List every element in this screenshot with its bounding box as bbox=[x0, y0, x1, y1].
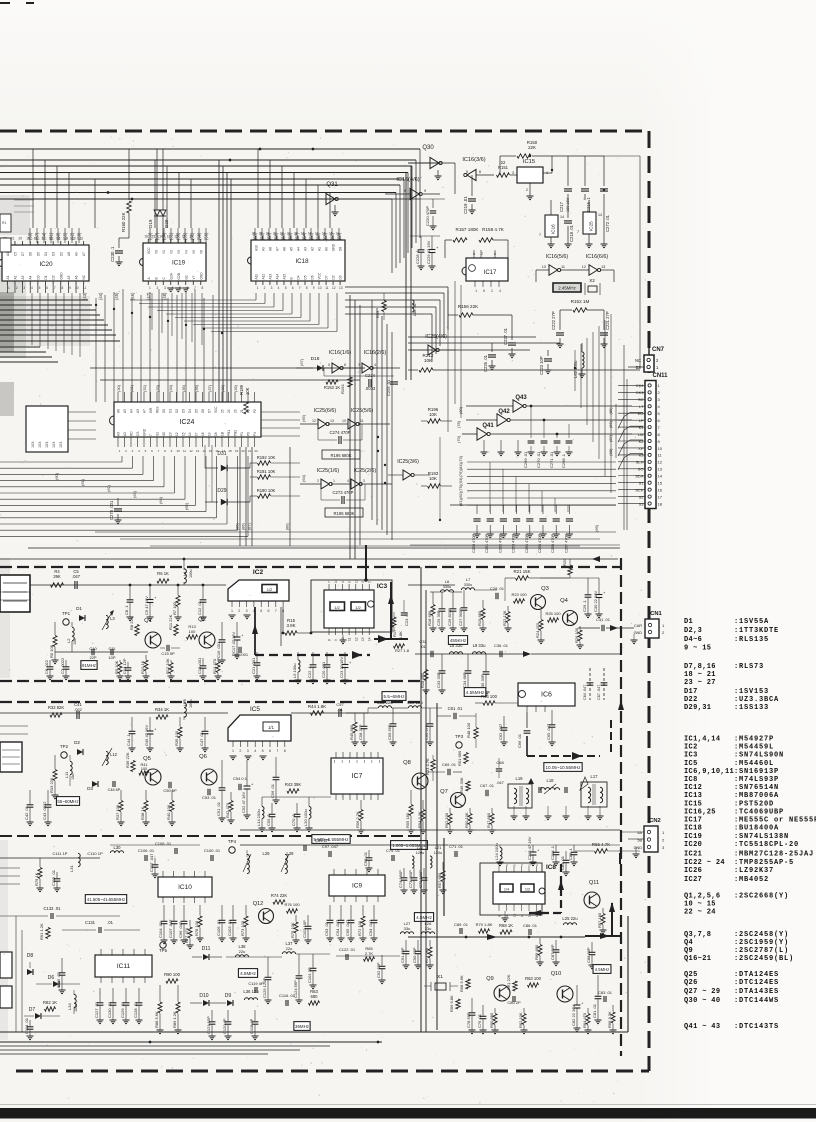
resistor R151 22 bbox=[497, 173, 510, 177]
svg-text:C78 56P: C78 56P bbox=[466, 1012, 471, 1028]
svg-text:22: 22 bbox=[501, 160, 506, 165]
capacitor C8 .1 bbox=[129, 585, 131, 599]
svg-text:R64 470: R64 470 bbox=[582, 1012, 587, 1028]
svg-text:RES: RES bbox=[156, 406, 160, 413]
svg-text:Q42: Q42 bbox=[498, 409, 510, 415]
svg-text:R151: R151 bbox=[498, 165, 509, 170]
svg-text:5: 5 bbox=[262, 749, 264, 753]
wire to CN2 bbox=[620, 831, 644, 833]
resistor R66 3.3K bbox=[612, 1005, 614, 1012]
svg-text:13: 13 bbox=[361, 637, 365, 641]
svg-text:R21 15K: R21 15K bbox=[513, 569, 530, 574]
svg-text:16: 16 bbox=[144, 235, 148, 239]
svg-text:X2: X2 bbox=[589, 278, 595, 283]
svg-text:L29: L29 bbox=[263, 851, 271, 856]
svg-text:Q30: Q30 bbox=[422, 145, 434, 151]
left edge cut box band C1 bbox=[0, 952, 12, 978]
svg-text:Q25: Q25 bbox=[684, 971, 698, 979]
svg-text:M54459L: M54459L bbox=[739, 744, 774, 752]
wire IC7 bottom rail bbox=[262, 796, 331, 798]
svg-text:D4~6: D4~6 bbox=[684, 636, 702, 644]
svg-text:L28: L28 bbox=[287, 851, 295, 856]
svg-text:Q11: Q11 bbox=[589, 880, 599, 886]
inductor L3 tunable bbox=[106, 615, 108, 628]
svg-text:Y5: Y5 bbox=[192, 250, 196, 254]
svg-text:6: 6 bbox=[292, 286, 294, 290]
svg-text:330u: 330u bbox=[443, 585, 451, 589]
svg-text:(47): (47) bbox=[146, 292, 151, 300]
wire AGC top bbox=[0, 558, 618, 560]
svg-text:Q41: Q41 bbox=[482, 423, 494, 429]
svg-text:R59: R59 bbox=[375, 310, 380, 318]
svg-text:91MHz: 91MHz bbox=[82, 663, 96, 668]
svg-text:5: 5 bbox=[466, 170, 468, 174]
capacitor C129 .01 bbox=[125, 988, 127, 1002]
svg-text:WR: WR bbox=[149, 407, 153, 413]
svg-text:A2: A2 bbox=[123, 432, 127, 436]
svg-text:X1: X1 bbox=[437, 974, 443, 980]
svg-text:LF: LF bbox=[639, 418, 644, 423]
resistor R12 10K bbox=[170, 660, 172, 662]
svg-text:C12 .01: C12 .01 bbox=[197, 600, 202, 615]
diode D19 bbox=[156, 149, 158, 210]
capacitor C26 820P bbox=[452, 592, 454, 608]
svg-text:10: 10 bbox=[176, 449, 180, 453]
svg-text:15: 15 bbox=[152, 235, 156, 239]
svg-text:14: 14 bbox=[368, 637, 372, 641]
svg-text:17: 17 bbox=[315, 232, 319, 236]
svg-text:D20: D20 bbox=[164, 219, 169, 228]
svg-text::: : bbox=[734, 696, 738, 704]
svg-text:C23 22 16V: C23 22 16V bbox=[339, 657, 344, 678]
svg-text:Q26: Q26 bbox=[684, 979, 698, 987]
svg-text:8: 8 bbox=[284, 749, 286, 753]
svg-text:R194: R194 bbox=[340, 384, 345, 394]
svg-text:MBM27C128-25JAJ: MBM27C128-25JAJ bbox=[739, 850, 814, 858]
svg-text:C108 .01: C108 .01 bbox=[155, 841, 172, 846]
capacitor C96 .01 bbox=[368, 850, 370, 857]
svg-text:C267 470P: C267 470P bbox=[564, 534, 568, 553]
resistor R14 470 bbox=[217, 658, 219, 661]
wire IC2 pin8 down bbox=[280, 607, 282, 646]
svg-text:10 ~ 15: 10 ~ 15 bbox=[684, 901, 716, 909]
svg-text:R195 680K: R195 680K bbox=[334, 511, 355, 516]
svg-text:C129 .01: C129 .01 bbox=[120, 1001, 125, 1018]
wire corner marks top left bbox=[0, 2, 10, 4]
capacitor C18 .001 bbox=[202, 658, 204, 665]
svg-text:18: 18 bbox=[34, 237, 38, 241]
svg-text:P2: P2 bbox=[253, 409, 257, 413]
svg-text:10: 10 bbox=[318, 286, 322, 290]
svg-text:IC18: IC18 bbox=[295, 258, 309, 265]
svg-text::: : bbox=[734, 859, 738, 867]
svg-text:5: 5 bbox=[328, 363, 330, 367]
svg-text:C58 27P: C58 27P bbox=[358, 724, 363, 740]
resistor R40 10K bbox=[171, 790, 173, 800]
svg-text:R63 100: R63 100 bbox=[525, 976, 542, 981]
svg-text:C262 470P: C262 470P bbox=[498, 534, 502, 553]
junction dots scattered top bbox=[377, 436, 379, 438]
wire bus y149 bbox=[0, 148, 420, 150]
svg-text:1SS133: 1SS133 bbox=[739, 704, 769, 712]
svg-text:R43 39K: R43 39K bbox=[285, 782, 302, 787]
svg-text:18: 18 bbox=[658, 501, 663, 506]
svg-text:20: 20 bbox=[19, 237, 23, 241]
svg-text:103: 103 bbox=[59, 442, 63, 448]
ground IC2 pins bbox=[229, 614, 236, 616]
svg-text:L8 33u: L8 33u bbox=[450, 643, 463, 648]
svg-text:13: 13 bbox=[339, 286, 343, 290]
svg-text:A10: A10 bbox=[254, 245, 258, 251]
svg-text:G2B: G2B bbox=[177, 273, 181, 279]
wire bottom gates row bbox=[410, 544, 620, 546]
svg-text:R51 680: R51 680 bbox=[457, 750, 462, 766]
svg-text:.047: .047 bbox=[496, 780, 505, 785]
resistor R5 10K bbox=[54, 622, 56, 635]
svg-text:R89 1.2K: R89 1.2K bbox=[172, 1011, 177, 1028]
svg-text:RLS73: RLS73 bbox=[739, 663, 764, 671]
svg-text:2SC2787(L): 2SC2787(L) bbox=[739, 947, 789, 955]
svg-text:R20: R20 bbox=[562, 558, 567, 566]
inverter IC16-1 bbox=[324, 367, 332, 369]
svg-text:.0033: .0033 bbox=[365, 386, 376, 391]
svg-text::: : bbox=[734, 955, 738, 963]
capacitor C130 .01 bbox=[112, 988, 114, 1002]
svg-text:C95 .047: C95 .047 bbox=[345, 919, 350, 936]
svg-text:8: 8 bbox=[201, 286, 203, 290]
capacitor C70 .1 bbox=[296, 803, 298, 814]
capacitor C78 56P bbox=[471, 998, 473, 1012]
capacitor C12 .01 bbox=[202, 585, 204, 599]
svg-text:3: 3 bbox=[164, 286, 166, 290]
svg-text:A3: A3 bbox=[21, 275, 25, 279]
svg-text:A14: A14 bbox=[275, 274, 279, 280]
IC19 decoder bbox=[143, 243, 206, 281]
svg-text:(61): (61) bbox=[80, 478, 85, 486]
svg-text:4.5MHz: 4.5MHz bbox=[595, 967, 609, 972]
svg-text:2.7K: 2.7K bbox=[365, 951, 374, 956]
svg-text::: : bbox=[734, 971, 738, 979]
svg-text:680: 680 bbox=[311, 994, 319, 999]
svg-text:1/4: 1/4 bbox=[504, 888, 509, 892]
svg-text:C10: C10 bbox=[89, 646, 97, 651]
svg-text:10K: 10K bbox=[429, 412, 437, 417]
svg-text:C93 .01: C93 .01 bbox=[324, 921, 329, 936]
capacitor C88 56P bbox=[591, 942, 593, 952]
resistor R26 100 bbox=[579, 626, 581, 630]
svg-text:C87 56P: C87 56P bbox=[550, 944, 555, 960]
svg-text:(86): (86) bbox=[608, 420, 613, 428]
wire IC8 rail y937 bbox=[408, 936, 585, 938]
resistor R57 680 bbox=[442, 862, 444, 870]
svg-text:(39): (39) bbox=[233, 384, 238, 392]
wire IC2 output bold bbox=[254, 607, 256, 655]
capacitor C90 33P bbox=[417, 940, 419, 951]
svg-text:1/2: 1/2 bbox=[525, 888, 530, 892]
capacitor C217 100 16V bbox=[567, 156, 569, 186]
svg-text:D4: D4 bbox=[297, 275, 301, 279]
svg-text:Q9: Q9 bbox=[486, 976, 493, 982]
wire gate row1 input bbox=[296, 367, 313, 369]
svg-text:R82 1K: R82 1K bbox=[43, 1000, 57, 1005]
svg-text:10: 10 bbox=[542, 265, 546, 269]
svg-text:A15: A15 bbox=[282, 274, 286, 280]
svg-text:(67): (67) bbox=[299, 358, 304, 366]
svg-text:26: 26 bbox=[252, 232, 256, 236]
callout 5.5-6MHz bbox=[382, 692, 406, 701]
svg-text:2: 2 bbox=[238, 609, 240, 613]
svg-text:C130 .01: C130 .01 bbox=[107, 1001, 112, 1018]
frame dashed top border bbox=[0, 130, 649, 133]
svg-text:7: 7 bbox=[299, 286, 301, 290]
resistor R88 5.6K bbox=[159, 985, 161, 1002]
svg-text:C81 .01: C81 .01 bbox=[592, 1003, 597, 1018]
svg-text:4.5MHz: 4.5MHz bbox=[416, 915, 433, 920]
svg-text:A4: A4 bbox=[297, 247, 301, 251]
wire bold vertical from top x366 bbox=[365, 545, 367, 580]
svg-text:R47 680: R47 680 bbox=[486, 812, 491, 828]
ground Q41 Q42 Q43 bbox=[483, 440, 485, 452]
svg-text::: : bbox=[734, 867, 738, 875]
resistor R24 470 bbox=[540, 610, 542, 619]
svg-text:14: 14 bbox=[334, 579, 338, 583]
callout 10.05-10.55MHz bbox=[544, 763, 582, 772]
svg-text:C260 470P: C260 470P bbox=[472, 534, 476, 553]
svg-text:11: 11 bbox=[183, 449, 186, 453]
svg-text:C99 2P: C99 2P bbox=[315, 838, 329, 843]
svg-text:R56 2.2K: R56 2.2K bbox=[355, 811, 360, 828]
svg-text:11: 11 bbox=[348, 637, 352, 641]
svg-text:(79): (79) bbox=[456, 435, 461, 443]
svg-text:103: 103 bbox=[45, 442, 49, 448]
svg-text:R39 22K: R39 22K bbox=[125, 752, 130, 768]
svg-text:22K: 22K bbox=[528, 145, 536, 150]
svg-text:D6: D6 bbox=[48, 975, 55, 981]
svg-text:14: 14 bbox=[188, 432, 192, 436]
svg-text:IC10: IC10 bbox=[178, 884, 192, 891]
svg-text:C265 470P: C265 470P bbox=[538, 534, 542, 553]
capacitor C55 .1 bbox=[271, 803, 273, 814]
svg-text:20: 20 bbox=[241, 449, 245, 453]
svg-text:C47 .01: C47 .01 bbox=[199, 731, 204, 746]
svg-text:(62): (62) bbox=[106, 484, 111, 492]
svg-text:IC11: IC11 bbox=[117, 963, 131, 970]
svg-text:R50 10K: R50 10K bbox=[464, 812, 469, 828]
svg-text:C54 0.1: C54 0.1 bbox=[233, 776, 248, 781]
capacitor C29 .1 bbox=[587, 578, 589, 594]
svg-text:B: B bbox=[289, 277, 293, 279]
svg-text:IC6: IC6 bbox=[541, 692, 552, 699]
svg-text:16: 16 bbox=[49, 237, 53, 241]
svg-text:19: 19 bbox=[26, 237, 30, 241]
svg-text:C96 .047: C96 .047 bbox=[178, 921, 183, 938]
svg-text:2.45MHz: 2.45MHz bbox=[558, 286, 576, 291]
svg-text:R190 10K: R190 10K bbox=[257, 488, 276, 493]
svg-text:24: 24 bbox=[227, 409, 231, 413]
inductor L62 100u bbox=[581, 343, 583, 352]
capacitor C44 .1 bbox=[131, 717, 133, 731]
svg-text:A2: A2 bbox=[13, 275, 17, 279]
wire band A entry lines left bbox=[0, 591, 30, 593]
svg-text:R76 100: R76 100 bbox=[284, 902, 300, 907]
ic IC9 bbox=[329, 875, 385, 896]
capacitor L18 coupling caps bbox=[538, 787, 540, 793]
capacitor C124 56P bbox=[298, 954, 300, 975]
svg-text:2SC2459(BL): 2SC2459(BL) bbox=[739, 955, 794, 963]
resistor R38 1K bbox=[145, 790, 147, 800]
capacitor C268 .1 bbox=[568, 424, 570, 438]
callout 91MHz bbox=[81, 661, 97, 670]
svg-text::: : bbox=[734, 947, 738, 955]
svg-text:5.5~6MHz: 5.5~6MHz bbox=[383, 694, 405, 699]
svg-text:C218 .01: C218 .01 bbox=[569, 224, 574, 242]
callout 4.5MHz b bbox=[414, 913, 433, 922]
IC19 ground pins bbox=[167, 287, 174, 289]
svg-text:R17: R17 bbox=[392, 629, 397, 637]
svg-text:G2A: G2A bbox=[169, 272, 173, 279]
svg-text:C273 470P: C273 470P bbox=[333, 490, 354, 495]
resistor R10 1K bbox=[145, 655, 147, 660]
svg-text:C36 .01: C36 .01 bbox=[494, 643, 509, 648]
svg-text::: : bbox=[734, 792, 738, 800]
svg-text:C263 470P: C263 470P bbox=[512, 534, 516, 553]
resistor R73 100 bbox=[245, 905, 247, 916]
svg-text:L5 100u: L5 100u bbox=[292, 664, 297, 678]
svg-text:B: B bbox=[154, 277, 158, 279]
svg-text:L3: L3 bbox=[110, 616, 115, 621]
ground CN1 bbox=[633, 634, 635, 640]
svg-text:L9 33u: L9 33u bbox=[473, 643, 486, 648]
svg-text:Q7: Q7 bbox=[440, 789, 448, 795]
svg-text:R78 100: R78 100 bbox=[194, 920, 199, 936]
svg-text:R196 680K: R196 680K bbox=[331, 453, 352, 458]
capacitor C270 .01 bbox=[543, 420, 545, 438]
resistor R64 470 bbox=[587, 1008, 589, 1013]
wire bus y172.5 bbox=[0, 172, 408, 174]
ic IC16 small bbox=[545, 215, 558, 237]
svg-text:19: 19 bbox=[301, 232, 305, 236]
svg-text:1SV55A: 1SV55A bbox=[739, 618, 769, 626]
svg-text:A8: A8 bbox=[67, 252, 71, 256]
svg-text:13: 13 bbox=[354, 579, 358, 583]
svg-text:10K: 10K bbox=[424, 358, 433, 363]
svg-text:IC18: IC18 bbox=[684, 825, 702, 833]
svg-text:TP4: TP4 bbox=[228, 839, 237, 844]
wire band C rail extension bbox=[240, 844, 448, 846]
svg-text::: : bbox=[734, 760, 738, 768]
svg-text:(85): (85) bbox=[608, 407, 613, 415]
svg-text:(48): (48) bbox=[162, 292, 167, 300]
wire long row y548 bbox=[28, 547, 620, 549]
svg-text:.01: .01 bbox=[107, 920, 113, 925]
capacitor C220 470P bbox=[432, 199, 434, 208]
svg-text:R60 680: R60 680 bbox=[489, 1012, 494, 1028]
wire IC24 pins to 85-88 bundle bbox=[239, 447, 241, 546]
svg-text::: : bbox=[734, 1023, 738, 1031]
svg-text:9: 9 bbox=[198, 235, 200, 239]
svg-text:12: 12 bbox=[175, 432, 179, 436]
resistor R62 10K bbox=[523, 1008, 525, 1013]
svg-text:D5: D5 bbox=[304, 275, 308, 279]
svg-text:103: 103 bbox=[52, 442, 56, 448]
svg-text:L30: L30 bbox=[114, 845, 122, 850]
svg-text:10: 10 bbox=[658, 446, 663, 451]
svg-text:3: 3 bbox=[23, 286, 25, 290]
svg-text:C111 1P: C111 1P bbox=[53, 851, 68, 856]
svg-text:C26 820P: C26 820P bbox=[447, 608, 452, 626]
svg-text:C261 470P: C261 470P bbox=[485, 534, 489, 553]
capacitor C87 56P bbox=[555, 940, 557, 949]
capacitor C25 39P bbox=[441, 592, 443, 608]
capacitor C101 3P bbox=[312, 954, 314, 968]
svg-text:R67 180: R67 180 bbox=[597, 912, 602, 928]
inverter IC25-1 bbox=[321, 479, 329, 489]
capacitor C230 .1 bbox=[118, 238, 120, 248]
svg-text:14: 14 bbox=[658, 474, 663, 479]
svg-text:(82): (82) bbox=[458, 491, 463, 499]
svg-text:C55 .1: C55 .1 bbox=[266, 813, 271, 826]
svg-text:Y6: Y6 bbox=[199, 250, 203, 254]
svg-text:D6: D6 bbox=[29, 252, 33, 256]
svg-text:(75): (75) bbox=[458, 484, 463, 492]
svg-text:L18: L18 bbox=[547, 778, 555, 783]
svg-text:C127 .01: C127 .01 bbox=[94, 1001, 99, 1018]
svg-text:R191 10K: R191 10K bbox=[257, 469, 276, 474]
svg-text:D3: D3 bbox=[182, 409, 186, 413]
svg-text:9: 9 bbox=[69, 286, 71, 290]
resistor R75 10K bbox=[295, 915, 297, 922]
wires top right power rail bbox=[454, 163, 456, 194]
svg-text:1: 1 bbox=[149, 286, 151, 290]
callout 4.55MHz bbox=[464, 688, 486, 697]
svg-text:C115 .01: C115 .01 bbox=[56, 971, 61, 988]
svg-text:R68 1K: R68 1K bbox=[499, 923, 513, 928]
svg-text:5: 5 bbox=[260, 609, 262, 613]
svg-text:C73 360P: C73 360P bbox=[408, 870, 413, 888]
svg-text:2: 2 bbox=[264, 286, 266, 290]
svg-text:R77 470: R77 470 bbox=[184, 927, 189, 943]
svg-text:D0: D0 bbox=[162, 409, 166, 413]
wire long verticals x350 to band A bbox=[349, 295, 351, 559]
svg-text:L12: L12 bbox=[110, 752, 118, 757]
svg-text:10: 10 bbox=[189, 235, 193, 239]
svg-text:6: 6 bbox=[473, 252, 475, 256]
svg-text:R152 1M: R152 1M bbox=[571, 299, 590, 304]
svg-text:C17 47 16V: C17 47 16V bbox=[231, 632, 236, 653]
svg-text::: : bbox=[734, 833, 738, 841]
svg-text:C102 10P: C102 10P bbox=[302, 920, 307, 938]
svg-text:14: 14 bbox=[64, 237, 68, 241]
svg-text:(80): (80) bbox=[458, 406, 463, 414]
svg-text:C45 47 16V: C45 47 16V bbox=[144, 725, 149, 746]
ic IC8 divider bbox=[493, 872, 545, 904]
svg-text::: : bbox=[734, 979, 738, 987]
svg-text:R14 470: R14 470 bbox=[212, 658, 217, 674]
svg-text:IC5: IC5 bbox=[684, 760, 698, 768]
svg-text:13: 13 bbox=[658, 467, 663, 472]
svg-text:C21 .001: C21 .001 bbox=[251, 657, 256, 674]
band C dash border top bbox=[0, 835, 420, 837]
svg-text:A13: A13 bbox=[268, 274, 272, 280]
svg-text:GND: GND bbox=[59, 272, 63, 280]
wire bus bundle left lower bbox=[0, 346, 40, 348]
svg-text:R52 100: R52 100 bbox=[444, 812, 449, 828]
svg-text::: : bbox=[734, 704, 738, 712]
svg-text:MB87006A: MB87006A bbox=[739, 792, 779, 800]
svg-text:1: 1 bbox=[333, 479, 335, 483]
inverter IC16-2 bbox=[342, 367, 362, 369]
IC18 cpu bbox=[251, 240, 345, 281]
